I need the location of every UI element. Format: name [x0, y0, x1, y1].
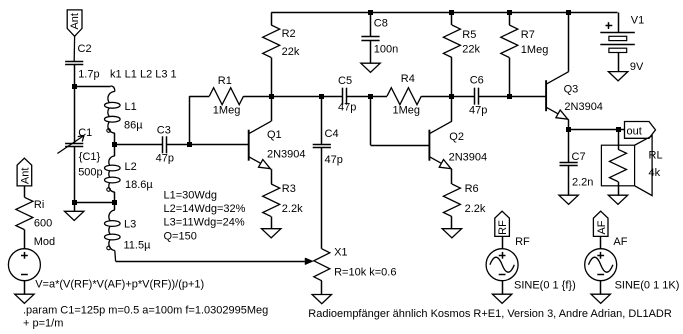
svg-text:R1: R1 — [218, 75, 232, 87]
svg-text:1Meg: 1Meg — [213, 105, 241, 117]
svg-text:2.2k: 2.2k — [282, 203, 303, 215]
svg-text:R4: R4 — [401, 73, 415, 85]
svg-text:C5: C5 — [338, 75, 352, 87]
svg-text:18.6µ: 18.6µ — [125, 179, 153, 191]
svg-text:C3: C3 — [157, 125, 171, 137]
svg-text:AF: AF — [613, 236, 627, 248]
svg-text:1Meg: 1Meg — [521, 44, 549, 56]
svg-text:2N3904: 2N3904 — [564, 101, 603, 113]
svg-text:Ri: Ri — [34, 199, 44, 211]
svg-text:47p: 47p — [338, 102, 356, 114]
svg-text:k1 L1 L2 L3 1: k1 L1 L2 L3 1 — [110, 69, 177, 81]
svg-text:2N3904: 2N3904 — [449, 152, 488, 164]
svg-text:R2: R2 — [282, 28, 296, 40]
svg-text:SINE(0 1 {f}): SINE(0 1 {f}) — [514, 280, 576, 292]
svg-text:L2: L2 — [125, 161, 137, 173]
svg-text:4k: 4k — [649, 167, 661, 179]
svg-text:2N3904: 2N3904 — [267, 149, 306, 161]
svg-text:R3: R3 — [282, 183, 296, 195]
svg-text:Radioempfänger ähnlich Kosmos: Radioempfänger ähnlich Kosmos R+E1, Vers… — [308, 308, 672, 320]
svg-text:R6: R6 — [465, 183, 479, 195]
svg-text:L3: L3 — [124, 219, 136, 231]
svg-text:Q3: Q3 — [564, 84, 579, 96]
svg-text:Ant: Ant — [69, 13, 81, 30]
svg-text:Ant: Ant — [20, 168, 32, 185]
svg-text:.param C1=125p m=0.5 a=100m f=: .param C1=125p m=0.5 a=100m f=1.0302995M… — [23, 305, 268, 317]
svg-text:+ p=1/m: + p=1/m — [23, 318, 63, 330]
svg-text:C6: C6 — [470, 75, 484, 87]
svg-text:47p: 47p — [325, 154, 343, 166]
svg-text:2.2k: 2.2k — [465, 203, 486, 215]
svg-text:AF: AF — [596, 220, 608, 234]
svg-text:1.7p: 1.7p — [78, 69, 99, 81]
svg-text:L2=14Wdg=32%: L2=14Wdg=32% — [164, 203, 246, 215]
svg-text:1Meg: 1Meg — [393, 105, 421, 117]
svg-text:L3=11Wdg=24%: L3=11Wdg=24% — [164, 217, 245, 229]
svg-text:22k: 22k — [282, 46, 300, 58]
svg-text:Mod: Mod — [34, 236, 55, 248]
svg-text:500p: 500p — [78, 167, 102, 179]
svg-text:R=10k k=0.6: R=10k k=0.6 — [334, 267, 396, 279]
svg-text:9V: 9V — [630, 61, 644, 73]
svg-text:C8: C8 — [374, 18, 388, 30]
svg-text:11.5µ: 11.5µ — [124, 240, 152, 252]
svg-text:SINE(0 1 1K): SINE(0 1 1K) — [615, 280, 680, 292]
svg-text:V1: V1 — [631, 15, 644, 27]
svg-text:100n: 100n — [374, 44, 398, 56]
svg-text:C7: C7 — [572, 151, 586, 163]
svg-text:C4: C4 — [325, 128, 339, 140]
svg-text:Q1: Q1 — [267, 129, 282, 141]
svg-text:R7: R7 — [521, 29, 535, 41]
svg-text:86µ: 86µ — [124, 120, 143, 132]
svg-text:Q2: Q2 — [449, 131, 464, 143]
svg-text:V=a*(V(RF)*V(AF)+p*V(RF))/(p+1: V=a*(V(RF)*V(AF)+p*V(RF))/(p+1) — [35, 278, 204, 290]
svg-text:out: out — [627, 125, 642, 137]
svg-text:RF: RF — [497, 220, 509, 235]
svg-text:2.2n: 2.2n — [572, 177, 593, 189]
svg-text:{C1}: {C1} — [79, 151, 101, 163]
svg-text:Q=150: Q=150 — [164, 230, 197, 242]
svg-text:C1: C1 — [78, 127, 92, 139]
svg-text:L1=30Wdg: L1=30Wdg — [164, 190, 218, 202]
svg-text:X1: X1 — [334, 247, 347, 259]
svg-text:R5: R5 — [462, 29, 476, 41]
svg-text:600: 600 — [34, 218, 52, 230]
svg-text:47p: 47p — [469, 105, 487, 117]
svg-text:47p: 47p — [156, 153, 174, 165]
svg-text:22k: 22k — [462, 44, 480, 56]
svg-text:RL: RL — [649, 150, 663, 162]
svg-text:L1: L1 — [125, 101, 137, 113]
svg-text:RF: RF — [515, 236, 530, 248]
svg-text:C2: C2 — [78, 43, 92, 55]
